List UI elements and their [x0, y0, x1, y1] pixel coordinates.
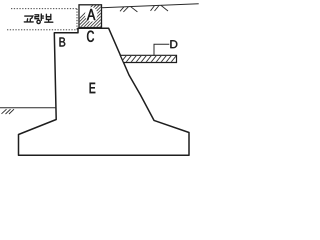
- 보: [45, 14, 47, 19]
- label A: [87, 9, 95, 20]
- 교: [25, 16, 33, 18]
- ground line left: [0, 107, 56, 109]
- ground line right: [102, 4, 199, 8]
- leader line for D: [154, 44, 169, 55]
- hatch lines inside A: [64, 0, 136, 34]
- label C: [87, 31, 94, 42]
- label 교량보 (hand-drawn hangul strokes): [24, 14, 53, 23]
- soil tuft marks (left): [2, 109, 15, 114]
- label E: [90, 83, 96, 93]
- soil tuft marks (right group 1): [120, 7, 137, 12]
- soil tuft marks (right group 2): [151, 5, 169, 11]
- approach slab D (hatched bar): [118, 51, 185, 66]
- abutment body outline (stem + footing): [19, 28, 190, 155]
- 량: [35, 15, 39, 19]
- white halo behind letter A: [85, 7, 97, 22]
- label D: [170, 40, 177, 48]
- label B: [60, 38, 66, 47]
- bearing block A (hatched box): [64, 0, 136, 34]
- bridge girder (dashed outline box): [7, 9, 77, 30]
